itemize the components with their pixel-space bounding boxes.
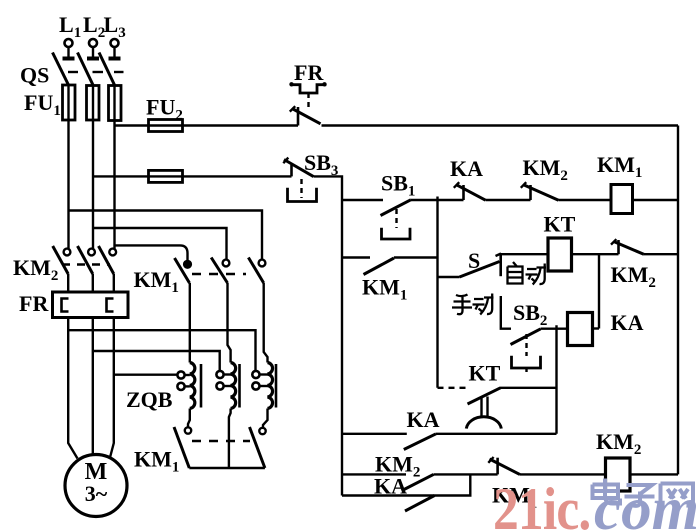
wire phase2 tap to ZQB coil2 tap	[93, 351, 220, 371]
coil KT	[548, 238, 572, 271]
svg-text:S: S	[468, 248, 480, 273]
svg-text:L3: L3	[104, 12, 126, 41]
svg-text:L2: L2	[83, 12, 105, 41]
relay contact KA NO rail1	[404, 434, 436, 450]
svg-text:KM2: KM2	[13, 255, 58, 284]
wire KA coil to junction vertical	[593, 327, 600, 329]
autotransformer ZQB winding 3	[268, 363, 277, 409]
svg-text:FR: FR	[294, 60, 324, 85]
svg-text:KM2: KM2	[523, 155, 568, 184]
fuse FU3 unlabeled	[149, 170, 183, 182]
switch QS linkage dashes	[68, 71, 124, 73]
fuse FU1 pole 2	[87, 86, 100, 121]
autotransformer ZQB winding 1	[190, 363, 201, 409]
wire ZQB winding3 bottom	[263, 409, 268, 428]
coil KM1	[611, 185, 633, 214]
wire top rail left	[115, 124, 149, 126]
wire ZQB winding2 bottom	[229, 409, 231, 469]
wire rung1 segment d	[559, 199, 612, 201]
wire rail2 segment a	[342, 473, 406, 475]
thermal relay FR contact	[290, 106, 321, 125]
wire star point bottom	[189, 467, 265, 469]
wire rail1 segment a	[342, 433, 407, 435]
wire S rung	[438, 276, 460, 278]
contactor KM1 star linkage dashes	[192, 440, 250, 442]
wire phase1 tap to ZQB coil3 tap	[69, 330, 256, 371]
svg-text:FU1: FU1	[24, 90, 61, 119]
wire junction vertical x599	[598, 254, 600, 328]
contactor KM1 star contact 1	[174, 427, 191, 468]
svg-text:KM1: KM1	[134, 267, 179, 296]
wire fuse to SB3	[183, 175, 292, 177]
wire rung1 segment e	[633, 199, 679, 201]
wire ZQB winding1 bottom	[188, 409, 190, 428]
label auto (zidong) glyphs	[508, 262, 547, 285]
svg-text:21ic.: 21ic.	[493, 476, 590, 531]
contactor KM2 main contact 1	[53, 246, 71, 294]
autotransformer ZQB winding 2	[231, 363, 240, 409]
terminal L1	[63, 39, 75, 59]
pushbutton SB2	[511, 329, 541, 373]
wire phase2 FR to motor	[92, 318, 94, 456]
fuse FU2	[149, 120, 183, 132]
svg-text:KM1: KM1	[597, 152, 642, 181]
wire top rail right	[322, 124, 679, 126]
terminal L3	[109, 39, 121, 59]
contactor contact KM2 NC rung1	[521, 182, 559, 200]
svg-text:KM2: KM2	[596, 429, 641, 458]
wire S to KT coil	[501, 253, 548, 255]
wire rail3	[342, 474, 470, 495]
relay contact KA NC rung1	[454, 182, 486, 200]
switch QS pole 3 blade	[99, 53, 115, 86]
wire phase3 tap to KM1 contact 1	[115, 245, 188, 261]
wire manual branch vertical	[501, 296, 511, 329]
contactor contact KM2 NO rail2	[404, 474, 434, 489]
svg-text:KT: KT	[544, 212, 576, 237]
contactor KM2 main contact 2	[78, 246, 95, 294]
relay contact KA NO rail3	[405, 496, 435, 512]
svg-text:KT: KT	[469, 361, 501, 386]
wire rung1 segment b	[411, 199, 464, 201]
contactor KM1 star contact 2	[250, 427, 266, 468]
wire phase1 FR to motor	[68, 318, 77, 459]
switch QS pole 2 blade	[78, 53, 94, 86]
thermal relay FR trip symbol	[289, 82, 326, 110]
wire KM2 coil to right vertical	[630, 473, 678, 475]
svg-text:KA: KA	[407, 407, 440, 432]
wire rung1 segment c	[486, 199, 531, 201]
wire KM2 NC to right vertical	[644, 253, 678, 255]
contactor KM1 start contact 2	[211, 258, 230, 363]
svg-text:SB2: SB2	[513, 300, 547, 329]
wire selfhold rung segment b	[394, 256, 438, 258]
svg-text:KA: KA	[374, 474, 407, 499]
watermark dianziwang glyphs	[593, 479, 694, 507]
selector switch S blade	[460, 253, 502, 277]
svg-text:FR: FR	[19, 291, 49, 316]
wire rail2 segment b	[434, 473, 498, 475]
svg-text:ZQB: ZQB	[126, 387, 173, 412]
contactor contact KM1 selfhold	[364, 258, 395, 275]
terminal L2	[87, 39, 99, 59]
wire top rail to FR contact	[183, 124, 299, 126]
fuse FU1 pole 1	[63, 85, 76, 120]
svg-text:3~: 3~	[85, 481, 108, 506]
wire phase3 tap to ZQB coil1 tap	[115, 374, 178, 376]
svg-text:KM1: KM1	[362, 275, 407, 304]
wire rail2 segment c	[520, 473, 606, 475]
switch QS pole 1 blade	[53, 53, 69, 86]
contactor KM1 start contact 3	[248, 258, 267, 363]
svg-text:L1: L1	[59, 12, 81, 41]
wire SB3 to left control vertical	[314, 176, 343, 495]
svg-text:KA: KA	[611, 310, 644, 335]
label manual (shoudong) glyphs	[452, 294, 494, 315]
svg-text:com: com	[594, 476, 696, 531]
coil KM2	[606, 458, 631, 491]
contactor contact KM2 NC auto branch	[611, 239, 644, 254]
pushbutton SB1 start	[381, 200, 412, 239]
pushbutton SB3 stop	[283, 158, 316, 202]
thermal relay FR heater box	[53, 292, 129, 318]
contactor KM1 start linkage dashes	[192, 273, 246, 275]
wire junction vertical x437	[436, 197, 438, 388]
wire phase3 vertical below FU1	[113, 121, 115, 249]
autotransformer ZQB winding 1 taps	[177, 371, 189, 390]
wire phase2 vertical below FU1	[92, 120, 94, 249]
svg-text:SB3: SB3	[304, 150, 338, 179]
motor M circle	[65, 455, 127, 517]
contactor KM2 linkage dashes	[62, 263, 110, 265]
wire SB2 to KA coil	[541, 328, 568, 330]
autotransformer ZQB winding 2 taps	[216, 371, 230, 390]
wire phase2 tap to KM1 contact 2	[93, 228, 227, 260]
timer contact KT delayed close	[438, 388, 557, 429]
svg-text:KM1: KM1	[134, 447, 179, 476]
wire phase1 tap to KM1 contact 3	[69, 211, 263, 260]
wire right side vertical	[677, 126, 679, 475]
wire SB2 output vertical x556	[555, 325, 557, 434]
wire rung1 segment a	[342, 199, 383, 201]
svg-text:KM2: KM2	[611, 262, 656, 291]
svg-text:SB1: SB1	[381, 171, 415, 200]
autotransformer ZQB winding 3 taps	[252, 371, 267, 390]
wire KT coil to junction	[572, 253, 619, 255]
contactor contact KM1 NC rail2	[488, 457, 520, 475]
svg-text:FU2: FU2	[146, 95, 183, 124]
coil KA	[568, 313, 593, 346]
contactor KM2 main contact 3	[99, 246, 117, 294]
wire phase1 vertical below FU1	[67, 120, 69, 249]
contactor KM1 start contact 1	[175, 258, 191, 363]
fuse FU1 pole 3	[109, 86, 122, 121]
wire phase3 FR to motor	[110, 318, 114, 458]
wire rail1 segment b	[436, 433, 557, 435]
svg-text:KA: KA	[450, 156, 483, 181]
svg-text:QS: QS	[20, 63, 49, 88]
wire selfhold rung segment a	[342, 256, 370, 258]
wire phase2 control branch	[93, 175, 149, 177]
